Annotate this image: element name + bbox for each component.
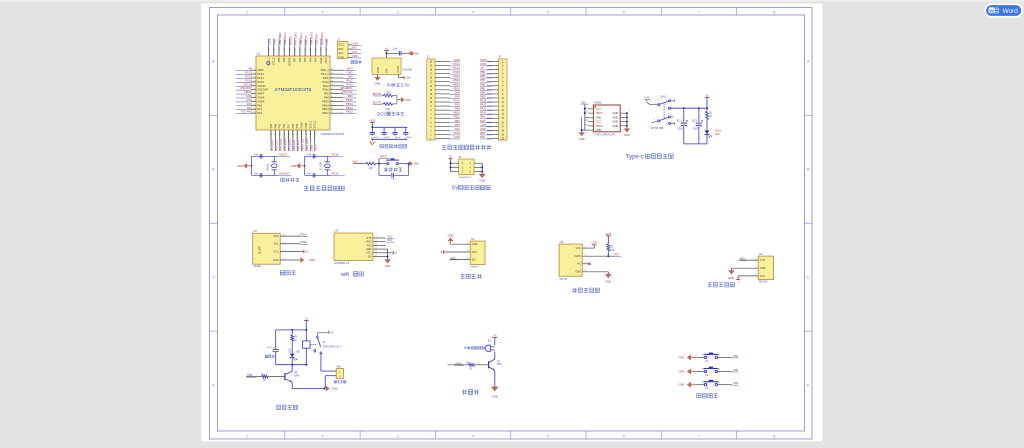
- mcu top pin wire / net PB9 PWM: [278, 32, 282, 62]
- svg-text:VBUS: VBUS: [596, 124, 603, 128]
- svg-text:12: 12: [253, 112, 255, 114]
- resistor 10K (BOOT0): [382, 94, 393, 97]
- svg-text:GND: GND: [376, 67, 380, 73]
- mcu top pin wire / net +3V3: [268, 38, 272, 65]
- capacitor EC3 heater: [268, 330, 279, 365]
- module U6 vibration body: [758, 256, 773, 279]
- resistor R1 1K: [706, 108, 713, 119]
- module U4 sound body: [470, 241, 485, 264]
- svg-text:VCC: VCC: [472, 250, 478, 254]
- svg-text:GND: GND: [273, 258, 279, 262]
- mcu right pin wire / net PA10RX1: [323, 86, 357, 91]
- label 单片机最小系统: [304, 185, 308, 187]
- svg-text:PB9: PB9: [480, 70, 485, 74]
- svg-text:PB12: PB12: [322, 111, 329, 115]
- wire J2 pin 20 net GND: [435, 58, 460, 62]
- svg-text:PA15: PA15: [320, 57, 323, 64]
- mcu right pin wire / net PA12: [323, 78, 357, 83]
- value label 阻电容: [265, 355, 268, 358]
- capacitor 104uF #3: [392, 127, 401, 139]
- power +5 led rail: [705, 93, 710, 108]
- wire J2 pin 4 net +3V3: [435, 123, 460, 127]
- svg-text:OLED: OLED: [258, 246, 262, 254]
- svg-text:+3V3: +3V3: [245, 98, 252, 102]
- power +5 sound: [440, 250, 447, 254]
- mcu left pin 5 wire / net OSCIN: [236, 82, 266, 87]
- wire BOOT common: [397, 96, 401, 104]
- mcu left pin 8 wire / net GND: [236, 94, 265, 99]
- svg-text:U3: U3: [335, 229, 339, 233]
- mcu bottom pin wire / net PB1 KEY: [296, 123, 300, 151]
- svg-text:OSCOUT: OSCOUT: [240, 86, 252, 90]
- svg-text:PB8 KEY1: PB8 KEY1: [283, 32, 287, 45]
- svg-text:PA10RX1: PA10RX1: [341, 86, 353, 90]
- wire J1 pin 4 to net GND: [348, 55, 361, 58]
- svg-text:PB10 TX3: PB10 TX3: [301, 138, 305, 151]
- sheet zone numbers: [212, 10, 810, 438]
- svg-text:36: 36: [300, 49, 302, 51]
- svg-text:EC1: EC1: [677, 120, 682, 123]
- net label PB0: [246, 373, 256, 377]
- svg-text:6: 6: [623, 10, 625, 14]
- svg-text:GND: GND: [679, 370, 685, 374]
- module U5 DHT11 body: [559, 244, 582, 276]
- capacitor 104uF #1: [370, 127, 379, 139]
- capacitor 10uf: [393, 48, 401, 56]
- resistor R4 1K buzzer: [467, 362, 475, 371]
- svg-text:PA15 NSS: PA15 NSS: [320, 32, 324, 45]
- capacitor EC1 25uF: [677, 108, 688, 144]
- svg-text:2: 2: [254, 73, 255, 75]
- svg-text:DIO: DIO: [352, 47, 357, 50]
- mcu top pin wire / net PB5 CS: [304, 35, 308, 62]
- svg-text:GND: GND: [291, 165, 297, 168]
- svg-text:NPN: NPN: [294, 374, 299, 377]
- svg-text:PB6: PB6: [480, 82, 485, 86]
- svg-text:20: 20: [331, 92, 333, 94]
- svg-text:PB1: PB1: [296, 123, 299, 128]
- svg-text:3.3V: 3.3V: [400, 83, 409, 88]
- svg-text:33: 33: [284, 49, 286, 51]
- label 独立按键: [697, 394, 701, 398]
- svg-text:PB0 ADC: PB0 ADC: [292, 140, 296, 151]
- svg-text:19: 19: [331, 96, 333, 98]
- wire U4 pin 1 GND: [451, 242, 478, 246]
- svg-text:11: 11: [254, 108, 256, 110]
- svg-text:OSCOUT: OSCOUT: [279, 172, 291, 176]
- svg-text:VSS_1: VSS_1: [309, 120, 312, 128]
- capacitor 30pf top: [307, 154, 315, 159]
- wire button S3 to net PB3: [718, 382, 739, 385]
- svg-text:PC15: PC15: [245, 78, 252, 82]
- wire U6 pin 1 OUT: [739, 258, 766, 262]
- svg-text:VDD_3: VDD_3: [320, 68, 329, 72]
- svg-text:104uF: 104uF: [372, 137, 379, 139]
- capacitor 104uF #4: [403, 127, 412, 139]
- svg-text:CLK: CLK: [352, 51, 357, 54]
- svg-text:VDDA: VDDA: [257, 99, 264, 103]
- svg-text:22: 22: [331, 84, 333, 86]
- wire button S1 to net PB1: [718, 355, 739, 358]
- label 芯片滤波电容: [380, 145, 384, 148]
- svg-text:PB7 SDA1: PB7 SDA1: [294, 32, 298, 45]
- net label OSCIN: [278, 153, 290, 157]
- svg-text:GND: GND: [613, 124, 619, 128]
- svg-text:GND: GND: [338, 55, 344, 59]
- svg-text:37: 37: [305, 49, 307, 51]
- wire J3 pin 13 net PA11: [480, 107, 498, 111]
- net label NRST: [379, 154, 390, 158]
- wire U5 pin 1 VCC: [576, 246, 595, 250]
- svg-text:OSCIN: OSCIN: [279, 153, 287, 157]
- svg-text:GND: GND: [332, 387, 338, 391]
- capacitor EC2 25uF: [692, 108, 703, 144]
- svg-text:PB15: PB15: [300, 240, 307, 244]
- svg-text:10: 10: [253, 104, 255, 106]
- svg-text:5V: 5V: [387, 83, 392, 88]
- mcu right pin wire / net PA11: [323, 82, 357, 87]
- svg-text:PC13: PC13: [245, 71, 252, 75]
- svg-text:PA7 MOSI: PA7 MOSI: [287, 138, 291, 151]
- resistor R5 1K led: [291, 330, 298, 342]
- svg-text:PA8: PA8: [348, 94, 353, 98]
- svg-text:PC13: PC13: [453, 62, 460, 66]
- svg-text:DIO: DIO: [348, 75, 353, 79]
- wire J2 pin 3 net PA1: [435, 127, 460, 131]
- svg-text:GND: GND: [309, 145, 313, 151]
- wire resistor to common: [393, 95, 397, 97]
- wire base: [246, 376, 262, 378]
- svg-text:5: 5: [547, 10, 549, 14]
- wire J2 pin 6 net PB11: [435, 115, 460, 119]
- svg-text:8: 8: [773, 10, 775, 14]
- svg-text:VSSA: VSSA: [257, 95, 264, 99]
- net label PA15: [455, 361, 465, 365]
- svg-text:GND: GND: [309, 258, 315, 262]
- sheet zone tick marks: [210, 8, 813, 440]
- svg-text:+5: +5: [305, 317, 309, 321]
- svg-text:GND: GND: [352, 55, 358, 58]
- net +3V3 at VOUT: [404, 76, 411, 80]
- svg-text:PB11: PB11: [454, 115, 461, 119]
- svg-text:SCL: SCL: [274, 242, 280, 246]
- net label BOOT0: [373, 92, 382, 96]
- svg-text:VDD_2: VDD_2: [268, 57, 271, 66]
- svg-text:PA10: PA10: [480, 111, 487, 115]
- svg-text:PB3 SCK: PB3 SCK: [315, 33, 319, 45]
- svg-text:PC14: PC14: [453, 66, 460, 70]
- svg-text:9: 9: [254, 100, 255, 102]
- mcu top pin wire / net PA15 NSS: [320, 32, 324, 63]
- svg-text:PC13: PC13: [257, 72, 264, 76]
- connector XH1 body: [336, 368, 343, 378]
- svg-text:PB8: PB8: [283, 57, 286, 62]
- svg-text:PA7: PA7: [615, 253, 620, 257]
- svg-text:PB10: PB10: [301, 122, 304, 129]
- svg-text:NRST: NRST: [244, 90, 252, 94]
- wire buzzer base: [448, 364, 469, 366]
- svg-text:5: 5: [254, 84, 255, 86]
- svg-text:21: 21: [331, 88, 333, 90]
- ground (left): [238, 163, 253, 168]
- wires J4 left bus to +5: [449, 156, 459, 172]
- svg-text:8: 8: [773, 434, 775, 438]
- svg-text:VCC: VCC: [366, 252, 371, 255]
- svg-text:8: 8: [254, 96, 255, 98]
- svg-text:30: 30: [268, 49, 270, 51]
- svg-text:17: 17: [331, 104, 333, 106]
- no-connect cross U5 pin 3: [588, 263, 590, 265]
- svg-text:+5: +5: [385, 47, 389, 51]
- wire J2 pin 18 net PC14: [435, 66, 460, 70]
- wire U3 pin 2 RXD: [366, 240, 385, 244]
- svg-text:PB15: PB15: [346, 98, 353, 102]
- connector J4 5V backup body: [459, 159, 475, 175]
- value label 接线端子: [334, 381, 336, 383]
- wire J3 pin 19 net PA2: [480, 131, 498, 135]
- mcu left pin 4 wire / net PC15: [236, 78, 265, 83]
- mcu bottom pin wire / net GND: [309, 120, 313, 151]
- svg-text:SRD-05VDC-SL-C: SRD-05VDC-SL-C: [323, 347, 342, 349]
- svg-text:GND: GND: [492, 394, 498, 398]
- svg-text:10K: 10K: [386, 91, 391, 94]
- wire button S2 to net PB4: [718, 369, 739, 372]
- svg-text:PC15: PC15: [257, 80, 264, 84]
- svg-text:+3V3: +3V3: [352, 42, 359, 45]
- mcu top pin wire / net BOOT0: [288, 35, 292, 66]
- svg-text:STM32F103C8T6: STM32F103C8T6: [321, 132, 345, 136]
- svg-text:DHT11: DHT11: [560, 278, 568, 281]
- module U3 wifi body: [334, 233, 373, 261]
- svg-text:25uF: 25uF: [693, 128, 699, 131]
- label 晶振电路: [281, 178, 285, 182]
- mcu bottom pin wire / net PA7 MOSI: [287, 123, 291, 151]
- svg-text:U6: U6: [759, 252, 763, 256]
- svg-text:PB13: PB13: [453, 78, 460, 82]
- net label PC15: [331, 172, 345, 176]
- svg-text:PA6: PA6: [283, 123, 286, 128]
- svg-text:+3V3: +3V3: [591, 242, 598, 245]
- svg-text:+3V3: +3V3: [454, 123, 461, 127]
- svg-text:PA5 SCK1: PA5 SCK1: [279, 138, 283, 151]
- mcu right pin wire / net PB12: [322, 110, 356, 115]
- svg-text:GND: GND: [347, 71, 353, 75]
- svg-text:D: D: [212, 383, 215, 387]
- svg-text:U4: U4: [471, 237, 475, 241]
- svg-text:15: 15: [293, 133, 295, 135]
- svg-text:PB15: PB15: [322, 99, 329, 103]
- sheet outer border frame: [210, 8, 813, 440]
- wire J2 pin 8 net PB0: [435, 107, 460, 111]
- svg-text:GND: GND: [406, 100, 411, 102]
- svg-text:2: 2: [321, 10, 323, 14]
- svg-text:25: 25: [331, 73, 333, 75]
- svg-text:GND: GND: [480, 127, 486, 131]
- svg-text:DATA: DATA: [574, 254, 581, 258]
- ground: [385, 260, 391, 269]
- svg-text:GND: GND: [366, 248, 372, 251]
- svg-text:PC14: PC14: [245, 75, 252, 79]
- schematic sheet page: [201, 3, 824, 442]
- transistor Q1 designator: [497, 360, 502, 366]
- wire resistor to common: [393, 103, 397, 105]
- ground (left): [291, 163, 306, 168]
- svg-text:PB3: PB3: [480, 94, 485, 98]
- capacitor 104uF #2: [382, 127, 391, 139]
- svg-text:PA11: PA11: [323, 84, 330, 88]
- svg-text:PB15: PB15: [453, 86, 460, 90]
- wire dht gnd: [607, 272, 609, 275]
- ground (left) button S1: [679, 355, 698, 360]
- svg-text:PA2: PA2: [480, 131, 485, 135]
- svg-text:PA5: PA5: [279, 123, 282, 128]
- svg-text:26: 26: [331, 69, 333, 71]
- node VIN / wire to bypass cap: [385, 52, 399, 54]
- svg-text:104uF: 104uF: [384, 137, 391, 139]
- svg-text:PB12: PB12: [346, 110, 353, 114]
- mcu left pin 10 wire / net PA0: [236, 102, 263, 107]
- wire crystal loop: [252, 156, 278, 175]
- svg-text:BOOT1: BOOT1: [373, 100, 382, 104]
- svg-text:VCC: VCC: [273, 249, 279, 253]
- wire vib gnd: [730, 268, 732, 270]
- svg-text:4: 4: [254, 80, 255, 82]
- svg-text:OLED: OLED: [253, 264, 261, 268]
- net label PB15: [300, 240, 309, 244]
- svg-text:PA12: PA12: [323, 80, 330, 84]
- ground (up) sound: [448, 234, 454, 245]
- mcu top pin wire / net PB8 KEY1: [283, 32, 287, 62]
- ground (right): [410, 161, 420, 166]
- wire emitter gnd rail: [292, 388, 325, 390]
- wire U2 pin 1 GND: [273, 258, 300, 262]
- mcu left pin 2 wire / net PC13: [236, 71, 265, 76]
- wire U5 pin 2 DATA: [574, 254, 614, 258]
- ground (right): [301, 258, 316, 263]
- svg-text:30pf: 30pf: [254, 154, 259, 156]
- svg-text:30pf: 30pf: [307, 154, 312, 156]
- svg-text:PB1: PB1: [733, 355, 738, 358]
- svg-text:PA0: PA0: [247, 102, 252, 106]
- svg-text:PC14: PC14: [332, 153, 339, 157]
- svg-text:NC1: NC1: [268, 347, 273, 349]
- svg-text:DO: DO: [472, 257, 476, 261]
- svg-text:4: 4: [472, 434, 474, 438]
- svg-text:+3V3: +3V3: [369, 118, 376, 122]
- svg-text:GND: GND: [679, 383, 685, 387]
- svg-text:13: 13: [284, 133, 286, 135]
- svg-text:B5: B5: [585, 120, 587, 122]
- relay K1 coil: [303, 341, 310, 365]
- svg-text:TXD: TXD: [367, 244, 372, 247]
- svg-text:TX2: TX2: [387, 235, 392, 238]
- svg-text:PB11: PB11: [305, 122, 308, 129]
- net label RX2: [387, 239, 395, 242]
- svg-text:PA3 RX2: PA3 RX2: [270, 140, 274, 151]
- ground: [370, 139, 375, 144]
- svg-text:2: 2: [321, 434, 323, 438]
- svg-text:PA0: PA0: [257, 103, 262, 107]
- svg-text:7: 7: [254, 92, 255, 94]
- svg-text:OSCIN: OSCIN: [243, 82, 252, 86]
- pin header J3 body: [498, 59, 507, 141]
- mcu bottom pin wire / net PA4 CS1: [274, 123, 278, 151]
- mcu top pin wire / net PB4 MISO: [309, 32, 313, 62]
- svg-text:PB1 KEY: PB1 KEY: [296, 140, 300, 151]
- svg-text:JTCK: JTCK: [325, 57, 328, 64]
- wire J3 pin 4 net PB9: [480, 70, 498, 74]
- svg-text:ESP8266-CP: ESP8266-CP: [335, 262, 350, 265]
- svg-text:LED: LED: [296, 352, 301, 354]
- ground: [579, 133, 585, 141]
- svg-text:PB14: PB14: [346, 102, 353, 106]
- svg-text:17: 17: [301, 133, 303, 135]
- wire heater top rail: [276, 329, 308, 331]
- svg-text:4: 4: [472, 10, 474, 14]
- svg-text:PB10: PB10: [453, 111, 460, 115]
- svg-text:U2: U2: [253, 229, 257, 233]
- svg-text:VCC: VCC: [760, 274, 766, 278]
- power +3V3 dht vcc: [591, 242, 598, 249]
- power +3V3 filter rail: [369, 118, 376, 127]
- power flag vib vcc: [736, 276, 740, 284]
- svg-text:XC6206: XC6206: [402, 68, 413, 72]
- wire J2 pin 16 net PB12: [435, 74, 460, 78]
- net label VIN: [644, 96, 651, 100]
- svg-text:GND: GND: [454, 58, 460, 62]
- svg-text:wifi: wifi: [340, 272, 349, 278]
- svg-text:Type-c: Type-c: [626, 154, 644, 160]
- wire J3 pin 2 net GND: [480, 62, 498, 66]
- wire J2 pin 5 net PB1: [435, 119, 460, 123]
- mcu top pin wire / net PB7 SDA1: [294, 32, 298, 63]
- svg-text:+3V3: +3V3: [346, 67, 353, 71]
- label 单片机引脚外引排针: [442, 144, 446, 146]
- wire J3 pin 12 net PA12: [480, 103, 498, 107]
- pushbutton S1: [698, 353, 721, 363]
- svg-text:RXD: RXD: [366, 241, 371, 244]
- mcu left pin 3 wire / net PC14: [236, 75, 265, 80]
- svg-text:GND: GND: [596, 115, 602, 119]
- wire U3 pin 5 VCC: [366, 251, 385, 255]
- svg-text:5: 5: [547, 434, 549, 438]
- svg-text:GND: GND: [413, 52, 419, 55]
- svg-text:VCC: VCC: [576, 246, 582, 250]
- svg-text:PB13: PB13: [322, 107, 329, 111]
- wire J3 pin 11 net PA15: [480, 99, 498, 103]
- mcu left pin 11 wire / net PA1: [236, 106, 263, 111]
- net label PA4: [450, 257, 458, 260]
- svg-text:PA4 CS1: PA4 CS1: [274, 140, 278, 151]
- svg-text:10K: 10K: [610, 249, 615, 252]
- svg-text:GND: GND: [679, 355, 685, 359]
- svg-text:PB14: PB14: [300, 232, 307, 236]
- svg-text:PB3: PB3: [733, 382, 738, 385]
- svg-text:04uf: 04uf: [391, 178, 396, 180]
- svg-text:41: 41: [326, 49, 328, 51]
- svg-text:+5: +5: [493, 334, 497, 338]
- svg-text:5B: 5B: [249, 67, 252, 71]
- svg-text:+3V3: +3V3: [352, 160, 359, 163]
- resistor R2 10K: [607, 244, 615, 257]
- mcu bottom pin wire / net PB10 TX3: [301, 122, 305, 151]
- net label TX2: [387, 235, 395, 238]
- label 声音检测: [461, 273, 465, 275]
- svg-text:7: 7: [698, 10, 700, 14]
- svg-text:PA10: PA10: [454, 99, 461, 103]
- svg-text:CC2: CC2: [596, 120, 602, 124]
- svg-text:PA12: PA12: [346, 78, 353, 82]
